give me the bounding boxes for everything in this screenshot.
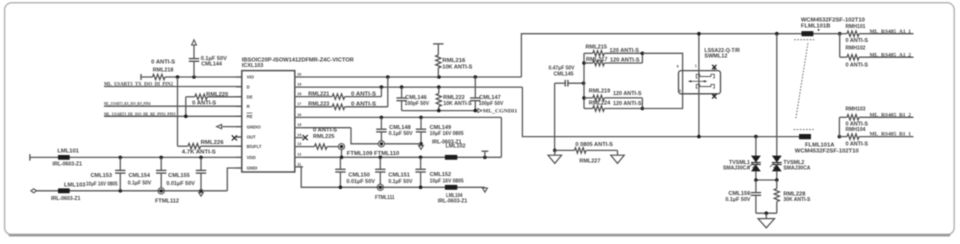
svg-text:RMH104: RMH104	[846, 127, 866, 133]
svg-text:VDD: VDD	[247, 155, 256, 160]
svg-text:ML_RS485_B1_1: ML_RS485_B1_1	[870, 133, 912, 138]
svg-text:CML155: CML155	[168, 173, 190, 179]
power symbol VIO	[193, 45, 195, 58]
no-connect X top pin SWML12	[713, 66, 715, 70]
svg-text:FTML112: FTML112	[155, 199, 179, 205]
no-connect X bottom pin SWML12	[713, 94, 715, 97]
junction CML147 top	[474, 75, 478, 79]
svg-text:B/UFLT: B/UFLT	[247, 144, 262, 149]
capacitor CML148	[380, 117, 382, 129]
svg-text:17: 17	[297, 102, 301, 106]
svg-text:ML_RS485_A1_2: ML_RS485_A1_2	[870, 53, 912, 58]
wire GNDI rail	[37, 190, 228, 192]
svg-text:RML217: RML217	[586, 57, 608, 63]
capacitor CML147	[474, 77, 476, 98]
junction CML150 bottom	[339, 186, 343, 190]
ferrite bead LML104	[445, 185, 457, 190]
svg-text:CML150: CML150	[348, 173, 370, 179]
svg-text:IRL-0603-Z1: IRL-0603-Z1	[51, 196, 81, 202]
junction RML222 top	[437, 85, 441, 89]
wire net ML_CGNDI1	[402, 110, 478, 112]
junction CML148 top	[380, 116, 384, 120]
svg-text:0.1μF 50V: 0.1μF 50V	[389, 131, 413, 137]
svg-text:RML222: RML222	[443, 95, 465, 101]
svg-text:IRL-0603-Z1: IRL-0603-Z1	[438, 199, 468, 205]
svg-text:RML215: RML215	[586, 45, 608, 51]
svg-text:ML_CGNDI1: ML_CGNDI1	[483, 109, 518, 115]
net arrow+label ML_CGNDI1	[478, 109, 482, 113]
net stub connector (left diamond)	[31, 189, 37, 193]
svg-text:FTML109 FTML110: FTML109 FTML110	[347, 151, 400, 157]
ground symbol right of RML227	[617, 154, 619, 156]
TVS diode TVSML2 SMAJ30CA	[772, 156, 782, 163]
junction pair2 tap	[641, 107, 645, 111]
svg-text:CML153: CML153	[91, 173, 113, 179]
svg-text:RML223: RML223	[308, 101, 329, 107]
svg-text:FLML101B: FLML101B	[801, 23, 831, 29]
junction RML222 bottom	[437, 109, 441, 113]
svg-text:GNDIO: GNDIO	[247, 124, 262, 129]
net label ML_RS485_B1_2	[860, 116, 914, 118]
junction CML152 top	[419, 156, 423, 160]
svg-text:100pF 50V: 100pF 50V	[479, 101, 504, 107]
svg-text:LML103: LML103	[64, 182, 86, 188]
net label ML_RS485_A1_2	[860, 56, 914, 58]
wire VIO pull-up branch	[177, 77, 179, 146]
junction RML219 left	[582, 96, 586, 100]
junction CML153 top	[119, 156, 123, 160]
wire RX net to pin 4	[104, 105, 242, 107]
resistor RML222	[438, 87, 440, 93]
svg-text:RML221: RML221	[308, 92, 329, 98]
resistor RML218	[140, 74, 142, 80]
wire net A (pin 19 rail)	[303, 86, 522, 88]
svg-text:CML145: CML145	[554, 71, 574, 77]
capacitor CML145	[555, 82, 566, 84]
svg-text:VIO: VIO	[247, 75, 255, 80]
svg-text:ML_RS485_A1_1: ML_RS485_A1_1	[870, 30, 912, 35]
capacitor CML155	[200, 157, 202, 170]
svg-text:0 ANTI-S: 0 ANTI-S	[151, 59, 175, 65]
svg-text:SMAJ30CA: SMAJ30CA	[783, 166, 810, 172]
resistor RML226	[178, 145, 189, 147]
resistor RML223	[303, 106, 332, 108]
svg-text:CML149: CML149	[430, 125, 452, 131]
wire TVSML2 riser	[776, 34, 778, 156]
svg-text:6: 6	[677, 64, 679, 68]
wire TVS common rail	[755, 171, 757, 180]
svg-text:RML220: RML220	[206, 92, 228, 98]
svg-text:RML224: RML224	[589, 101, 611, 107]
common-mode choke FLML101B	[801, 31, 813, 36]
svg-text:30K ANTI-S: 30K ANTI-S	[783, 197, 810, 203]
capacitor CML152	[420, 157, 422, 169]
probe tick	[481, 150, 488, 152]
svg-text:0 ANTI-S: 0 ANTI-S	[313, 128, 337, 134]
svg-text:OUT: OUT	[247, 135, 256, 140]
IC right pin stubs and pin numbers	[295, 166, 303, 168]
svg-text:WCM4532F2SF-102T10: WCM4532F2SF-102T10	[795, 148, 859, 154]
svg-text:14: 14	[297, 133, 302, 137]
wire protection gnd link	[756, 212, 777, 214]
junction RML216 bottom	[437, 75, 441, 79]
svg-text:10μF 16V 0805: 10μF 16V 0805	[430, 131, 464, 137]
junction gnd node	[765, 211, 769, 215]
net label ML_RS485_B1_1	[860, 136, 914, 138]
svg-text:CML152: CML152	[430, 172, 452, 178]
junction FTML109 stub	[340, 156, 344, 160]
resistor RMH103	[838, 117, 840, 136]
svg-text:RML225: RML225	[313, 134, 335, 140]
wire TX net to pin 2	[104, 86, 242, 88]
resistor RML216	[433, 43, 444, 45]
svg-text:RMH101: RMH101	[846, 24, 866, 30]
junction TVS rail right	[775, 178, 779, 182]
wire DE/RE net to pin 5	[104, 115, 242, 117]
junction pair1 tap	[641, 52, 645, 56]
wire TVSML1 stub	[755, 137, 757, 156]
wire termination bus	[583, 53, 585, 108]
antenna arrow end of GND2 rail	[482, 188, 487, 192]
svg-text:RML218: RML218	[153, 67, 174, 73]
svg-text:CML154: CML154	[129, 173, 151, 179]
svg-text:0.1μF 50V: 0.1μF 50V	[725, 197, 750, 203]
antenna arrow below CML149	[419, 146, 424, 150]
wire bead B to split	[813, 33, 839, 35]
svg-text:RML227: RML227	[579, 158, 600, 164]
junction RML221 riser on A	[380, 85, 384, 89]
svg-text:GNDI: GNDI	[247, 166, 258, 171]
junction TVSML2 riser on B rail	[775, 32, 779, 36]
junction SWML12 on B rail	[697, 32, 701, 36]
resistor RMH104	[839, 136, 847, 138]
wire pair1 tap to SWML12	[642, 53, 682, 70]
svg-text:0.1μF 50V: 0.1μF 50V	[128, 180, 152, 186]
wire VDD2 rail (pin 16)	[303, 116, 501, 118]
junction A split node	[838, 32, 842, 36]
svg-text:0 ANTI-S: 0 ANTI-S	[351, 92, 377, 98]
svg-text:ML_USART3_RX_ISO_RO_PIN4: ML_USART3_RX_ISO_RO_PIN4	[104, 101, 151, 106]
junction CML155 top	[199, 156, 203, 160]
junction CML147 bottom	[474, 109, 478, 113]
junction TVS rail left	[754, 178, 758, 182]
capacitor CML149	[420, 117, 422, 129]
svg-text:13: 13	[297, 142, 301, 146]
resistor RML228	[776, 180, 778, 189]
capacitor CML153	[119, 157, 121, 170]
junction SWML12 on A rail	[697, 135, 701, 139]
svg-text:D: D	[247, 85, 250, 90]
junction B split node	[838, 135, 842, 139]
svg-text:0 ANTI-S: 0 ANTI-S	[192, 101, 216, 107]
net label ML_RS485_A1_1	[860, 33, 914, 35]
svg-text:ML_RS485_B1_2: ML_RS485_B1_2	[870, 113, 912, 118]
resistor RML215	[584, 52, 593, 54]
wire net B (pin 20 rail)	[303, 76, 521, 78]
test point FTML112	[158, 188, 164, 194]
svg-text:0.01μF 50V: 0.01μF 50V	[166, 181, 195, 187]
svg-text:CML148: CML148	[389, 125, 411, 131]
resistor RML219	[584, 97, 593, 99]
junction RML217 left	[582, 61, 586, 65]
choke coupling dashed diagonal	[796, 43, 808, 118]
TVS diode TVSML1 SMAJ30CA	[751, 156, 761, 163]
antenna arrow below CML155	[199, 193, 204, 197]
svg-text:120 ANTI-S: 120 ANTI-S	[613, 101, 642, 107]
capacitor CML154	[160, 157, 162, 170]
junction CML146 top	[400, 85, 404, 89]
no-connect X at pin 7 OUT	[236, 136, 242, 138]
junction RML220 on DE net	[184, 115, 188, 119]
svg-text:LML102: LML102	[446, 144, 466, 150]
junction RML218/RML226 node	[176, 75, 180, 79]
wire GND2 rail (pin 11)	[295, 167, 485, 187]
svg-text:CML146: CML146	[405, 95, 427, 101]
ferrite bead LML103	[58, 188, 70, 193]
wire pair2 tap to SWML12	[642, 94, 682, 109]
IC left pin stubs	[236, 76, 242, 78]
svg-text:RML226: RML226	[201, 140, 224, 146]
svg-text:12: 12	[297, 153, 301, 157]
svg-text:0.01μF 50V: 0.01μF 50V	[346, 179, 375, 185]
svg-text:16: 16	[297, 113, 301, 117]
svg-text:SMAJ30CA: SMAJ30CA	[723, 166, 750, 172]
wire SWML12 element A (x=698.9)	[698, 34, 700, 137]
resistor RMH102	[839, 34, 841, 58]
svg-text:1: 1	[695, 64, 697, 68]
test point FTML109	[338, 144, 344, 150]
junction CML155 bottom	[199, 189, 203, 193]
ground arrow at pin 6 GNDIO	[222, 126, 242, 128]
common-mode choke FLML101A	[794, 129, 814, 131]
svg-text:RMH102: RMH102	[846, 46, 866, 52]
test point FTML111	[377, 184, 383, 190]
svg-text:10μF 16V 0805: 10μF 16V 0805	[430, 178, 464, 184]
svg-text:RML216: RML216	[442, 58, 465, 64]
junction CML144 tap	[192, 75, 196, 79]
resistor RMH101	[840, 33, 847, 35]
test point FTML110	[378, 141, 384, 147]
op-amp/IC U ICXL103 ISOW1412	[242, 71, 295, 172]
resistor RML224	[584, 108, 593, 110]
resistor RML217	[584, 62, 593, 64]
capacitor CML151	[379, 157, 381, 169]
svg-text:120 ANTI-S: 120 ANTI-S	[610, 48, 640, 54]
junction RML223 riser on B	[386, 75, 390, 79]
svg-text:0 ANTI-S: 0 ANTI-S	[846, 63, 869, 69]
ground symbol left of RML227	[554, 150, 556, 155]
junction CML151 top	[379, 156, 383, 160]
svg-text:11: 11	[297, 162, 301, 166]
capacitor CML146	[401, 87, 403, 98]
capacitor CML144	[193, 58, 195, 60]
svg-text:SWML12: SWML12	[704, 54, 727, 60]
svg-text:18: 18	[297, 92, 301, 96]
svg-text:120 ANTI-S: 120 ANTI-S	[610, 58, 640, 64]
junction probe tick node	[483, 156, 487, 160]
junction CML152 bottom	[419, 186, 423, 190]
capacitor CML150	[339, 157, 341, 169]
svg-text:IRL-0603-Z1: IRL-0603-Z1	[53, 161, 83, 167]
svg-text:0 ANTI-S: 0 ANTI-S	[351, 101, 377, 107]
resistor RML225	[303, 146, 315, 148]
SWML12 inner TVS glyphs	[696, 74, 714, 78]
junction CML145 on term bus	[582, 81, 586, 85]
svg-text:RMH103: RMH103	[846, 107, 866, 113]
svg-text:ICXL103: ICXL103	[242, 63, 264, 69]
capacitor CML156	[755, 180, 757, 193]
svg-text:10K ANTI-S: 10K ANTI-S	[442, 65, 472, 71]
TVS array SWML12 LSSA22-Q-T/R	[679, 71, 721, 94]
junction CML153 bottom	[119, 189, 123, 193]
svg-text:10μF 16V 0805: 10μF 16V 0805	[86, 182, 118, 188]
junction TVSML1 tap on A rail	[754, 135, 758, 139]
svg-text:19: 19	[297, 83, 301, 87]
RE overline	[247, 112, 253, 114]
wire VDD2 filter rail (pin 12)	[303, 156, 501, 158]
svg-text:CML144: CML144	[201, 62, 222, 68]
svg-text:CML151: CML151	[388, 173, 410, 179]
svg-text:15: 15	[297, 123, 301, 127]
svg-text:0 ANTI-S: 0 ANTI-S	[846, 142, 869, 148]
svg-text:3: 3	[679, 89, 681, 93]
svg-text:CML147: CML147	[479, 95, 501, 101]
svg-text:10K ANTI-S: 10K ANTI-S	[443, 101, 472, 107]
svg-text:RML219: RML219	[589, 88, 611, 94]
svg-text:4.7K ANTI-S: 4.7K ANTI-S	[182, 149, 217, 155]
junction CML154 top	[159, 156, 163, 160]
svg-text:LML101: LML101	[57, 148, 79, 154]
ferrite bead LML101	[58, 155, 70, 160]
svg-text:100pF 50V: 100pF 50V	[405, 101, 430, 107]
wire GND2 spur (pin 15)	[303, 127, 351, 129]
wire SWML12 element B (x=682.6)	[682, 71, 684, 94]
resistor RML220	[185, 97, 187, 117]
ferrite bead LML102	[445, 155, 457, 160]
svg-text:RE: RE	[247, 114, 253, 119]
wire VIO rail to pin 1	[178, 76, 242, 78]
junction CML145/RML227 node	[553, 149, 557, 153]
ground symbol protection	[765, 213, 767, 218]
svg-text:0.1μF 50V: 0.1μF 50V	[388, 179, 412, 185]
wire VDD rail left	[29, 154, 31, 161]
svg-text:DE: DE	[247, 95, 253, 100]
junction CML149 top	[419, 116, 423, 120]
resistor RML221	[303, 96, 332, 98]
svg-text:120 ANTI-S: 120 ANTI-S	[613, 91, 642, 97]
svg-text:0 0805 ANTI-S: 0 0805 ANTI-S	[575, 142, 613, 148]
svg-text:FTML111: FTML111	[375, 195, 395, 201]
svg-text:0 ANTI-S: 0 ANTI-S	[846, 38, 869, 44]
junction CML149 bottom on GND2 spur	[419, 142, 423, 146]
no-connect X at pin 14	[303, 135, 308, 140]
junction CML150 top	[339, 156, 341, 158]
svg-text:20: 20	[297, 72, 301, 76]
